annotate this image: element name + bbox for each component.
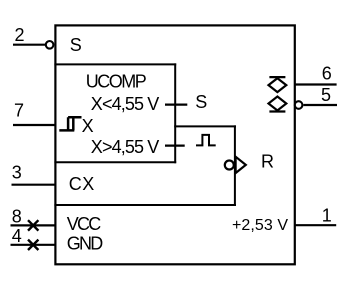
- svg-text:VCC: VCC: [67, 214, 102, 234]
- pin 4 wire: [11, 244, 56, 246]
- pin 2 wire: [13, 44, 45, 46]
- open-collector output symbol: bottom bar: [269, 110, 285, 112]
- pin 3 wire: [12, 184, 56, 186]
- open-collector output symbol: diamond: [269, 97, 287, 111]
- UCOMP box bottom edge: [54, 161, 176, 163]
- svg-text:+2,53 V: +2,53 V: [232, 217, 288, 234]
- wire X&lt;4,55 V output to S: [165, 103, 187, 105]
- svg-text:S: S: [70, 35, 82, 55]
- svg-text:1: 1: [322, 206, 332, 226]
- R input dynamic triangle: [236, 157, 246, 173]
- svg-text:R: R: [261, 152, 274, 172]
- open-emitter output symbol: diamond: [269, 78, 287, 92]
- open-emitter output symbol: top bar: [269, 76, 285, 78]
- svg-text:UCOMP: UCOMP: [86, 72, 147, 92]
- wire X&gt;4,55 V output to pulse shaper: [165, 145, 185, 147]
- pin 6 wire: [295, 83, 337, 85]
- step-input symbol at pin 7: [59, 117, 81, 130]
- UCOMP box top edge: [54, 63, 176, 65]
- pin 5 inversion bubble: [295, 101, 303, 109]
- svg-text:4: 4: [12, 226, 22, 246]
- svg-text:GND: GND: [67, 233, 104, 253]
- pulse shaper box right edge: [234, 125, 236, 206]
- svg-text:X: X: [82, 116, 94, 136]
- pin 7 wire: [13, 124, 55, 126]
- VCC/GND section divider: [54, 204, 236, 206]
- UCOMP box right edge: [174, 63, 176, 163]
- svg-text:CX: CX: [69, 174, 95, 194]
- IC body outline: [55, 25, 294, 264]
- pin 1 wire: [295, 224, 336, 226]
- svg-text:X>4,55 V: X>4,55 V: [91, 137, 160, 157]
- svg-text:6: 6: [322, 64, 332, 84]
- pulse symbol: [196, 135, 216, 146]
- svg-text:8: 8: [12, 206, 22, 226]
- svg-text:7: 7: [14, 100, 24, 120]
- pulse shaper box top edge: [174, 125, 236, 127]
- svg-text:S: S: [195, 92, 207, 112]
- pin 2 inversion bubble: [46, 41, 54, 49]
- svg-text:5: 5: [321, 85, 331, 105]
- svg-text:3: 3: [12, 162, 22, 182]
- pin 4 non-logic X mark: [28, 240, 38, 250]
- pin 5 wire: [303, 104, 337, 106]
- R input negation bubble: [225, 161, 234, 170]
- pin 8 wire: [11, 224, 56, 226]
- pin 8 non-logic X mark: [28, 220, 38, 230]
- svg-text:X<4,55 V: X<4,55 V: [91, 94, 160, 114]
- svg-text:2: 2: [15, 25, 25, 45]
